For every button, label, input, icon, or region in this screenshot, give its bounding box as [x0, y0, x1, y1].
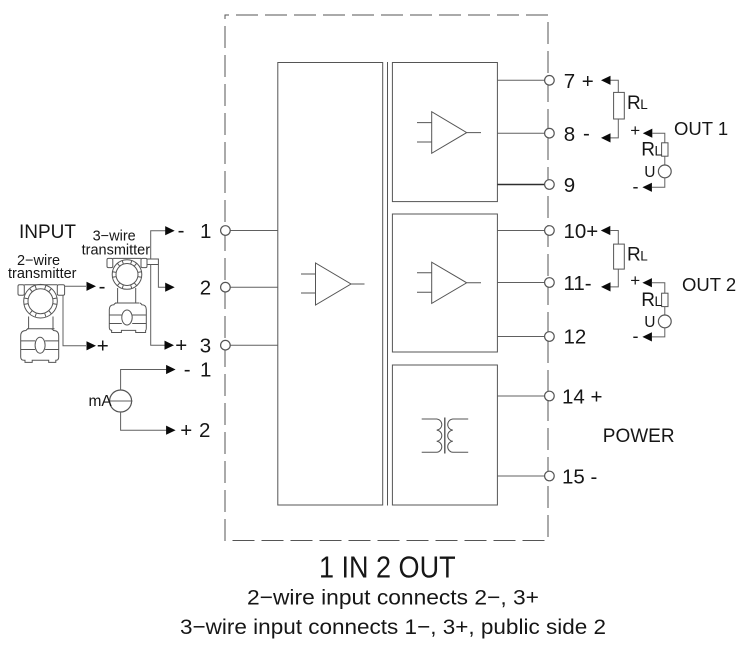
svg-text:L: L [640, 97, 648, 112]
terminal 7 [545, 76, 555, 86]
svg-text:9: 9 [564, 174, 575, 197]
arrow into terminal 10 [601, 226, 611, 235]
svg-text:+: + [582, 70, 594, 93]
svg-text:R: R [641, 140, 655, 161]
svg-text:R: R [627, 93, 641, 114]
svg-text:11-: 11- [564, 272, 592, 295]
svg-text:transmitter: transmitter [8, 266, 77, 282]
terminal 14 [545, 391, 555, 401]
svg-text:3: 3 [200, 335, 211, 358]
svg-text:U: U [644, 314, 655, 331]
svg-text:7: 7 [564, 70, 575, 93]
svg-text:POWER: POWER [603, 426, 675, 447]
wire block2 to terminal 11 [497, 282, 544, 284]
svg-text:U: U [644, 164, 655, 181]
svg-text:+: + [630, 271, 640, 290]
arrow into terminal 7 [601, 76, 611, 85]
arrow into terminal 8 [601, 133, 611, 142]
svg-text:+: + [180, 419, 192, 442]
svg-text:OUT 1: OUT 1 [674, 118, 728, 139]
mA meter [110, 390, 132, 412]
svg-text:L: L [655, 294, 663, 309]
voltage meter U (OUT2) [658, 315, 671, 328]
load resistor RL1 [614, 92, 625, 119]
wire 3-wire to row2 [158, 265, 165, 288]
terminal 8 [545, 128, 555, 138]
terminal 15 [545, 471, 555, 481]
wire terminal2 to U1 [230, 286, 278, 288]
voltage meter U (OUT1) [658, 165, 671, 178]
wire mA to row +2 [121, 412, 167, 430]
svg-text:2: 2 [199, 419, 210, 442]
wire power block to terminal 15 [497, 475, 544, 477]
svg-text:INPUT: INPUT [19, 222, 76, 243]
wire OUT1 top [652, 133, 665, 143]
wire arrow10 to RL2 [610, 231, 618, 245]
power supply block box [392, 365, 497, 505]
arrow row2 [165, 283, 175, 292]
svg-text:14 +: 14 + [562, 385, 602, 408]
svg-text:-: - [633, 176, 639, 196]
dashed enclosure border [225, 15, 548, 541]
svg-text:1: 1 [200, 220, 211, 243]
svg-text:10+: 10+ [564, 220, 599, 243]
svg-text:+: + [97, 335, 109, 358]
connector block on 3-wire head [147, 259, 158, 265]
svg-text:R: R [641, 290, 655, 311]
op-amp A1 (input amplifier) [301, 263, 365, 305]
load resistor RL (OUT1) [662, 143, 668, 156]
svg-text:L: L [640, 249, 648, 264]
svg-text:-: - [184, 358, 191, 381]
wire RL to U meter (OUT1) [664, 156, 666, 165]
svg-text:2−wire input connects 2−, 3+: 2−wire input connects 2−, 3+ [247, 586, 539, 610]
arrow into terminal 11 [601, 282, 611, 291]
wire 2-wire transmitter plus [63, 295, 86, 346]
svg-text:OUT 2: OUT 2 [682, 274, 736, 295]
arrow 2-wire plus [87, 341, 97, 350]
arrow mA plus [166, 426, 176, 435]
svg-text:15 -: 15 - [562, 466, 597, 489]
wire block2 to terminal 12 [497, 336, 544, 338]
svg-text:1: 1 [200, 359, 211, 382]
terminal 11 [545, 278, 555, 288]
main isolator block U1 [278, 63, 383, 506]
arrow row3 [165, 341, 175, 350]
svg-text:3−wire input connects 1−, 3+,: 3−wire input connects 1−, 3+, public sid… [180, 615, 606, 639]
output block 1 box [392, 63, 497, 202]
terminal 3 [221, 340, 231, 350]
svg-text:+: + [175, 334, 187, 357]
svg-text:2: 2 [200, 277, 211, 300]
wire RL to U meter (OUT2) [664, 307, 666, 315]
svg-text:mA: mA [89, 393, 113, 410]
wire block1 to terminal 7 [497, 79, 544, 81]
output block 2 box [392, 214, 497, 352]
svg-text:+: + [630, 121, 640, 140]
transformer T1 [422, 418, 469, 454]
load resistor RL (OUT2) [662, 293, 668, 306]
op-amp A3 (output 2 amplifier) [417, 262, 481, 303]
wire U to OUT1 minus arrow [652, 178, 665, 188]
arrow mA minus [166, 365, 176, 374]
2-wire transmitter symbol [18, 284, 65, 362]
wire terminal3 to U1 [230, 344, 278, 346]
svg-text:L: L [655, 144, 663, 159]
svg-text:12: 12 [564, 325, 587, 348]
isolation barrier line [387, 62, 389, 506]
svg-text:R: R [627, 245, 641, 266]
wire power block to terminal 14 [497, 395, 544, 397]
wire RL2 to arrow11 [611, 269, 619, 287]
svg-text:-: - [633, 326, 639, 346]
svg-text:-: - [178, 219, 185, 242]
wire arrow7 to RL1 [611, 80, 619, 92]
wire terminal1 to U1 [230, 230, 278, 232]
wire RL1 to arrow8 [611, 119, 619, 138]
svg-text:transmitter: transmitter [82, 243, 151, 259]
wire 3-wire common vertical [151, 231, 166, 346]
wire block1 to terminal 9 [497, 184, 544, 186]
terminal 1 [221, 226, 231, 236]
terminal 2 [221, 282, 231, 292]
wire block2 to terminal 10 [497, 230, 544, 232]
terminal 12 [545, 332, 555, 342]
load resistor RL2 [614, 244, 625, 269]
svg-text:-: - [583, 122, 590, 145]
svg-text:-: - [99, 275, 106, 298]
3-wire transmitter symbol [107, 258, 147, 332]
wire 2-wire transmitter minus [65, 285, 86, 287]
svg-text:1 IN 2 OUT: 1 IN 2 OUT [319, 550, 456, 585]
wire U to OUT2 minus arrow [652, 328, 665, 337]
svg-text:8: 8 [564, 123, 575, 146]
wire mA to row -1 [121, 370, 167, 391]
wire OUT2 top [652, 283, 665, 294]
terminal 10 [545, 226, 555, 236]
terminal 9 [545, 180, 555, 190]
arrow 2-wire minus [87, 282, 97, 291]
arrow row1 [165, 226, 175, 235]
wire block1 to terminal 8 [497, 132, 544, 134]
op-amp A2 (output 1 amplifier) [417, 112, 481, 154]
